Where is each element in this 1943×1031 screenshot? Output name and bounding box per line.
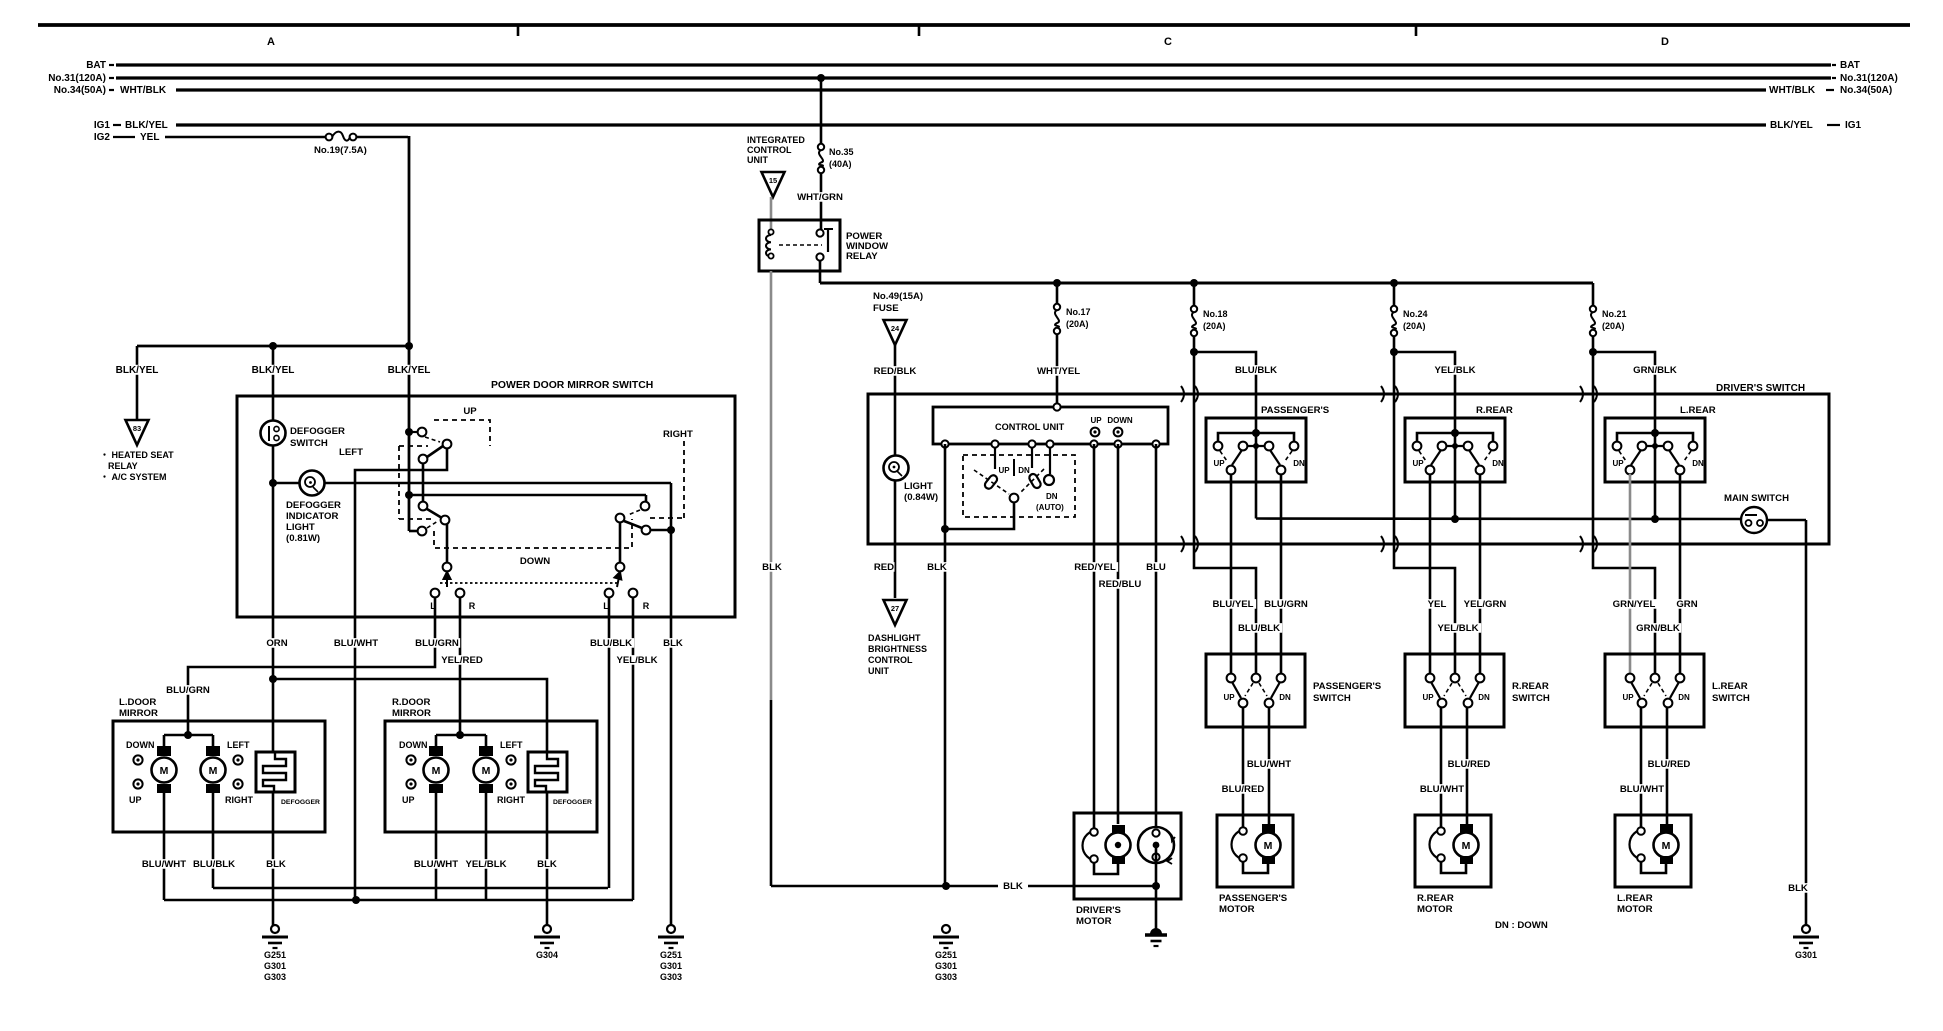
svg-text:M: M (1462, 840, 1471, 852)
svg-text:UP: UP (1422, 693, 1434, 702)
wire YEL from fuse No.19 to column drop (356, 136, 408, 139)
indicator UP right mirror (406, 779, 415, 788)
wire RED/BLU to driver's motor (1117, 444, 1120, 824)
R.REAR feed bar (1417, 433, 1493, 442)
svg-text:L.DOOR: L.DOOR (119, 697, 156, 708)
wire to fuse No.35 (820, 78, 823, 144)
svg-text:G301: G301 (935, 961, 957, 971)
svg-text:G303: G303 (264, 972, 286, 982)
svg-text:M: M (1662, 840, 1671, 852)
PASSENGER'S center wire in box (1255, 436, 1258, 482)
wire YEL IG2 feed (165, 136, 326, 139)
wire BAT bus (116, 63, 1831, 66)
driver's switch plunger DN auto (1049, 448, 1051, 474)
top border frame line (38, 23, 1910, 27)
wire WHT/YEL fuse to control unit (1056, 334, 1059, 403)
wire BLU/RED r.rear motor (1466, 707, 1469, 824)
mechanism dashed LEFT box (398, 446, 400, 519)
wire ICU to relay coil (shield) (770, 197, 773, 230)
junction BLK column y530 (667, 526, 675, 534)
wire BLK bottom run to driver's motor (771, 885, 998, 888)
svg-text:G251: G251 (660, 950, 682, 960)
svg-text:M: M (209, 765, 218, 777)
svg-text:GRN/BLK: GRN/BLK (1633, 365, 1677, 376)
svg-text:MOTOR: MOTOR (1617, 904, 1653, 915)
fuse No.17(20A) (1054, 304, 1060, 310)
wire motor common bar left mirror (164, 734, 213, 737)
svg-text:L.REAR: L.REAR (1680, 405, 1716, 416)
junction BLK common (941, 525, 949, 533)
svg-text:BLK: BLK (762, 562, 782, 573)
driver's switch plunger left (994, 448, 996, 469)
svg-text:IG1: IG1 (94, 120, 111, 131)
svg-text:BLU/RED: BLU/RED (1222, 784, 1265, 795)
svg-text:BLU/GRN: BLU/GRN (1264, 599, 1308, 610)
svg-text:BLK/YEL: BLK/YEL (252, 365, 295, 376)
PASSENGER'S SWITCH enclosure (1206, 654, 1305, 727)
wire relay output to window bus (819, 261, 822, 283)
selector contact J right (616, 563, 625, 572)
svg-text:SWITCH: SWITCH (1712, 693, 1750, 704)
connector triangle 15 integrated control unit (762, 172, 785, 197)
power window relay enclosure (759, 220, 840, 271)
motor M3 up/down right mirror (435, 735, 438, 748)
svg-text:INTEGRATED: INTEGRATED (747, 135, 805, 145)
fuse No.19(7.5A) (326, 134, 333, 141)
left rocker contact B (443, 440, 452, 449)
svg-text:RED: RED (874, 562, 894, 573)
svg-text:RED/BLU: RED/BLU (1099, 579, 1142, 590)
svg-text:YEL/BLK: YEL/BLK (616, 655, 657, 666)
R.REAR contacts (1413, 442, 1422, 451)
L.REAR SWITCH levers (1631, 682, 1640, 698)
wire BLU/WHT l.rear motor (1640, 707, 1643, 828)
motor M1 up/down left mirror (163, 735, 166, 748)
selector arrow left (444, 572, 451, 587)
PASSENGER'S SWITCH levers (1232, 682, 1241, 698)
svg-text:UP: UP (1412, 459, 1424, 468)
mechanism dashed UP linkage (434, 420, 490, 446)
ground G251 G301 G303 control unit (942, 925, 950, 933)
driver's switch plunger mid (1031, 448, 1033, 468)
svg-text:SWITCH: SWITCH (290, 438, 328, 449)
left rocker contact A (405, 428, 413, 436)
left rocker dashed link F (427, 521, 438, 528)
PASSENGER'S SWITCH top contacts (1227, 674, 1236, 683)
wire BLK/YEL down to defogger switch (272, 346, 275, 422)
svg-text:MAIN SWITCH: MAIN SWITCH (1724, 493, 1789, 504)
right rocker contact P (641, 502, 650, 511)
right rocker lever H-I (624, 521, 642, 528)
R.REAR center wire in box (1454, 436, 1457, 482)
wire right mirror motor2 output YEL/BLK (485, 793, 488, 900)
svg-text:BLU/WHT: BLU/WHT (1620, 784, 1664, 795)
svg-text:BLK: BLK (663, 638, 683, 649)
wire WHT/BLK bus (176, 88, 1766, 91)
svg-text:(20A): (20A) (1602, 321, 1625, 331)
wire right mirror motor1 output BLU/WHT (435, 793, 438, 900)
svg-text:INDICATOR: INDICATOR (286, 511, 338, 522)
junction fuse 35 tap on No.31 bus (817, 74, 825, 82)
svg-text:RED/YEL: RED/YEL (1074, 562, 1116, 573)
wire BLU/BLK jog to passenger switch (1194, 352, 1256, 433)
svg-text:M: M (160, 765, 169, 777)
svg-text:YEL: YEL (1428, 599, 1447, 610)
svg-text:BLU/RED: BLU/RED (1648, 759, 1691, 770)
svg-text:DN: DN (1018, 466, 1030, 475)
PASSENGER'S output contacts (1227, 466, 1236, 475)
svg-text:CONTROL UNIT: CONTROL UNIT (995, 422, 1065, 432)
svg-text:No.31(120A): No.31(120A) (48, 73, 106, 84)
svg-text:No.31(120A): No.31(120A) (1840, 73, 1898, 84)
svg-text:D: D (1661, 36, 1669, 48)
junction ORN branch y679 (269, 675, 277, 683)
wire BLU/BLK through driver's switch to door switch (1194, 352, 1256, 674)
svg-text:WHT/BLK: WHT/BLK (120, 85, 167, 96)
L.REAR MOTOR enclosure (1615, 815, 1691, 887)
driver's switch dashed box (963, 455, 1075, 517)
driver's motor breaker contact (1083, 830, 1099, 861)
wire left mirror motor2 output BLU/BLK (212, 793, 215, 888)
wire BLK switch ground drop (670, 617, 673, 929)
terminal L left pair (431, 589, 440, 598)
wire lever common jog to contact (409, 530, 418, 533)
svg-text:(0.81W): (0.81W) (286, 533, 320, 544)
svg-text:UP: UP (402, 795, 415, 805)
ground G251 G301 G303 mirror switch (667, 925, 675, 933)
svg-text:BLK/YEL: BLK/YEL (1770, 120, 1813, 131)
driver's switch dashed lever links (974, 470, 1009, 494)
svg-text:RED/BLK: RED/BLK (874, 366, 917, 377)
wire BLU/GRN from terminal L (188, 597, 435, 735)
svg-text:BLU/BLK: BLU/BLK (590, 638, 632, 649)
svg-text:BLU/BLK: BLU/BLK (1238, 623, 1280, 634)
svg-text:UP: UP (1622, 693, 1634, 702)
junction at 409,346 (405, 342, 413, 350)
svg-text:BLU/BLK: BLU/BLK (193, 859, 235, 870)
power door mirror switch enclosure (237, 396, 735, 617)
motor M2 left/right left mirror (212, 735, 215, 748)
R.REAR SWITCH output contacts (1438, 699, 1447, 708)
wire ORN branch to right defogger (273, 679, 547, 753)
svg-text:(0.84W): (0.84W) (904, 492, 938, 503)
svg-text:G304: G304 (536, 950, 558, 960)
driver's regulator drum (1138, 827, 1174, 863)
grid tick B/C boundary (918, 25, 921, 36)
defogger switch SW1 (261, 421, 286, 446)
wire passenger's center to lock bus (1255, 482, 1258, 519)
wire YEL/GRN r.rear down output (1479, 474, 1482, 674)
svg-text:DN: DN (1492, 459, 1504, 468)
wire RED down from light (894, 480, 897, 598)
wire regulator to ground (1155, 845, 1158, 929)
left rocker contact F (418, 527, 427, 536)
svg-text:G303: G303 (935, 972, 957, 982)
svg-text:DASHLIGHT: DASHLIGHT (868, 633, 921, 643)
wire BLU/RED l.rear motor (1666, 707, 1669, 824)
junction fuse 24 tap (1390, 279, 1398, 287)
R.REAR MOTOR breaker contact (1430, 829, 1445, 860)
right rocker contact I (642, 526, 651, 535)
svg-text:CONTROL: CONTROL (868, 655, 913, 665)
svg-text:UP: UP (1223, 693, 1235, 702)
wire GRN/YEL l.rear up output (shielded) (1629, 474, 1632, 674)
L.REAR feed bar (1617, 433, 1693, 442)
svg-text:No.24: No.24 (1403, 309, 1428, 319)
wire BLK inside switch x671 (670, 483, 673, 617)
ground G251 G301 G303 left mirror (271, 925, 279, 933)
R.REAR levers (1431, 450, 1441, 465)
terminal L right pair (605, 589, 614, 598)
svg-text:YEL/BLK: YEL/BLK (465, 859, 506, 870)
svg-text:M: M (482, 765, 491, 777)
svg-text:WHT/BLK: WHT/BLK (1769, 85, 1816, 96)
right rocker dashed link (628, 510, 640, 515)
svg-text:GRN/YEL: GRN/YEL (1613, 599, 1656, 610)
svg-text:BLU/GRN: BLU/GRN (166, 685, 210, 696)
L.REAR SWITCH enclosure (1605, 654, 1704, 727)
svg-text:YEL/RED: YEL/RED (441, 655, 483, 666)
svg-text:POWER DOOR MIRROR SWITCH: POWER DOOR MIRROR SWITCH (491, 380, 653, 391)
PASSENGER'S MOTOR enclosure (1217, 815, 1293, 887)
junction defogger switch / indicator light (269, 479, 277, 487)
svg-text:L.REAR: L.REAR (1617, 893, 1653, 904)
connector brackets bottom edge (1181, 536, 1184, 552)
motor M4 left/right right mirror (485, 735, 488, 748)
wire YEL/BLK jog to r.rear switch (1394, 352, 1455, 433)
svg-text:・ A/C SYSTEM: ・ A/C SYSTEM (100, 472, 167, 482)
wire defogger switch to ORN output (272, 446, 275, 617)
wire BLU/GRN passenger down output (1280, 474, 1283, 674)
svg-text:SWITCH: SWITCH (1313, 693, 1351, 704)
svg-text:G301: G301 (1795, 950, 1817, 960)
wire BLU/RED passenger motor (1242, 707, 1245, 828)
junction BLU/WHT common y900 (352, 896, 360, 904)
connector triangle 24 fuse 49 (884, 320, 907, 345)
svg-text:YEL/BLK: YEL/BLK (1437, 623, 1478, 634)
junction fuse 17 tap (1053, 279, 1061, 287)
wire ORN down to defogger feed (272, 617, 275, 753)
svg-text:UNIT: UNIT (868, 666, 889, 676)
mechanism dashed DOWN linkage (434, 519, 632, 548)
svg-text:L.REAR: L.REAR (1712, 681, 1748, 692)
svg-text:CONTROL: CONTROL (747, 145, 792, 155)
relay contacts (816, 229, 823, 236)
svg-text:YEL: YEL (140, 132, 159, 143)
svg-text:R.DOOR: R.DOOR (392, 697, 430, 708)
svg-text:BLU/WHT: BLU/WHT (1420, 784, 1464, 795)
svg-text:BLK: BLK (927, 562, 947, 573)
svg-text:BLU/GRN: BLU/GRN (415, 638, 459, 649)
wire RED/BLK to dash light (894, 345, 897, 456)
wire to fuse No.17 (1056, 283, 1059, 304)
svg-text:BLU/RED: BLU/RED (1448, 759, 1491, 770)
left rocker lever column C-D (422, 463, 425, 502)
mechanism dashed RIGHT linkage (683, 441, 685, 518)
svg-text:83: 83 (133, 424, 141, 433)
fuse No.24(20A) (1391, 306, 1397, 312)
connector brackets top edge (1181, 386, 1184, 402)
wire YEL r.rear up output (1429, 474, 1432, 674)
svg-text:BLK/YEL: BLK/YEL (388, 365, 431, 376)
wire BLU/WHT pickoff B to output (355, 448, 447, 617)
wire GRN/BLK jog to l.rear switch (1593, 352, 1655, 433)
svg-text:DOWN: DOWN (520, 556, 550, 567)
terminal R left pair (456, 589, 465, 598)
svg-text:DN: DN (1046, 492, 1058, 501)
wire RED/YEL to driver's motor (1093, 444, 1096, 828)
svg-text:RIGHT: RIGHT (663, 429, 693, 440)
wire GRN l.rear down output (1679, 474, 1682, 674)
svg-text:DEFOGGER: DEFOGGER (553, 799, 592, 806)
svg-text:M: M (1264, 840, 1273, 852)
svg-text:DOWN: DOWN (126, 740, 155, 750)
svg-text:LEFT: LEFT (500, 740, 523, 750)
L.REAR MOTOR motor (1660, 824, 1673, 833)
wire BLU/WHT passenger motor (1268, 707, 1271, 824)
junction r.rear center (1451, 515, 1459, 523)
wire left defogger BLK ground drop (272, 792, 275, 929)
L.REAR contacts (1613, 442, 1622, 451)
R.REAR SWITCH levers (1431, 682, 1440, 698)
svg-text:BLU/WHT: BLU/WHT (142, 859, 186, 870)
wire BLU/WHT common down (354, 617, 357, 900)
svg-text:No.19(7.5A): No.19(7.5A) (314, 145, 367, 156)
svg-text:MOTOR: MOTOR (1219, 904, 1255, 915)
PASSENGER'S contacts (1214, 442, 1223, 451)
svg-text:DEFOGGER: DEFOGGER (286, 500, 341, 511)
svg-text:G251: G251 (935, 950, 957, 960)
driver's motor bottom link (1094, 863, 1118, 874)
svg-text:No.35: No.35 (829, 147, 854, 157)
svg-text:R.REAR: R.REAR (1476, 405, 1513, 416)
bus BAT label right (1832, 64, 1836, 66)
svg-text:24: 24 (891, 324, 900, 333)
wire GRN/BLK through driver's switch to door switch (1593, 352, 1655, 674)
svg-text:G301: G301 (264, 961, 286, 971)
wire BLU/BLK routing line y888 (213, 887, 608, 890)
bus No.31(120A) label right (1832, 77, 1836, 79)
svg-text:BLU/WHT: BLU/WHT (334, 638, 378, 649)
wire YEL/BLK from terminal R (632, 597, 635, 900)
svg-text:ORN: ORN (266, 638, 287, 649)
svg-text:UP: UP (1213, 459, 1225, 468)
junction BLK at driver's motor (1152, 882, 1160, 890)
relay coil (768, 229, 773, 234)
svg-text:DOWN: DOWN (399, 740, 428, 750)
wire power window feed bus y283 (820, 282, 1593, 285)
wire lever E to selector G (446, 524, 449, 563)
terminal R right pair (629, 589, 638, 598)
left rocker dashed link A-B (425, 437, 440, 442)
wire window lock bus y518 (1256, 517, 1742, 520)
svg-text:YEL/BLK: YEL/BLK (1434, 365, 1475, 376)
L.REAR levers (1631, 450, 1641, 465)
defogger element right mirror (528, 752, 567, 792)
svg-text:GRN: GRN (1676, 599, 1697, 610)
svg-text:LIGHT: LIGHT (286, 522, 315, 533)
ground G301 main switch (1802, 925, 1810, 933)
R.REAR output contacts (1426, 466, 1435, 475)
svg-text:PASSENGER'S: PASSENGER'S (1261, 405, 1330, 416)
svg-text:BLK/YEL: BLK/YEL (116, 365, 159, 376)
svg-text:UNIT: UNIT (747, 155, 768, 165)
svg-text:DN: DN (1692, 459, 1704, 468)
svg-text:GRN/BLK: GRN/BLK (1636, 623, 1680, 634)
right rocker contact H (616, 514, 625, 523)
wire to fuse No.24 (1393, 283, 1396, 306)
svg-text:RIGHT: RIGHT (225, 795, 254, 805)
wire right lever H to selector J (619, 522, 622, 563)
R.REAR MOTOR bottom link (1441, 862, 1466, 873)
wire BLU/YEL passenger up output (1230, 474, 1233, 674)
svg-text:No.17: No.17 (1066, 307, 1091, 317)
svg-text:UP: UP (129, 795, 142, 805)
svg-text:LEFT: LEFT (227, 740, 250, 750)
svg-text:BLU/BLK: BLU/BLK (1235, 365, 1277, 376)
svg-text:UP: UP (1612, 459, 1624, 468)
svg-text:(20A): (20A) (1203, 321, 1226, 331)
R.REAR SWITCH enclosure (1405, 654, 1504, 727)
svg-text:G251: G251 (264, 950, 286, 960)
wire contact I to BLK column (650, 529, 671, 532)
svg-text:M: M (432, 765, 441, 777)
svg-text:(40A): (40A) (829, 159, 852, 169)
wire BLK/YEL to right rocker y495 (409, 494, 646, 497)
svg-text:IG1: IG1 (1845, 120, 1862, 131)
wire WHT/GRN fuse to relay (820, 173, 823, 230)
control unit terminals (941, 440, 948, 447)
wire BLK control unit ground (944, 444, 947, 886)
svg-text:MOTOR: MOTOR (1076, 916, 1112, 927)
svg-text:BLU: BLU (1146, 562, 1166, 573)
svg-text:DN: DN (1279, 693, 1291, 702)
defogger indicator light L1 (0.81W) (273, 482, 299, 485)
PASSENGER'S feed bar (1218, 433, 1294, 442)
svg-text:BRIGHTNESS: BRIGHTNESS (868, 644, 927, 654)
left rocker lever D-E (427, 509, 442, 518)
wire BLK/YEL vertical drop x409 (408, 136, 411, 347)
svg-text:BAT: BAT (86, 60, 106, 71)
svg-text:No.18: No.18 (1203, 309, 1228, 319)
driver's motor enclosure (1074, 813, 1181, 899)
ground driver's motor (1150, 928, 1162, 934)
svg-text:DN : DOWN: DN : DOWN (1495, 920, 1548, 931)
selector arrow right (615, 572, 622, 587)
svg-text:WHT/YEL: WHT/YEL (1037, 366, 1080, 377)
svg-text:UP: UP (998, 466, 1010, 475)
svg-text:BLK: BLK (537, 859, 557, 870)
svg-text:No.34(50A): No.34(50A) (54, 85, 106, 96)
wire BLK/YEL down to connector 83 (136, 346, 139, 419)
driver's motor (1112, 825, 1125, 834)
ground G304 right mirror (543, 925, 551, 933)
svg-text:DRIVER'S SWITCH: DRIVER'S SWITCH (1716, 383, 1805, 394)
grid tick C/D boundary (1415, 25, 1418, 36)
svg-text:R: R (643, 601, 650, 611)
svg-text:BLU/WHT: BLU/WHT (414, 859, 458, 870)
L.REAR SWITCH top contacts (1626, 674, 1635, 683)
svg-text:R.REAR: R.REAR (1512, 681, 1549, 692)
left rocker contact E (441, 516, 450, 525)
svg-text:(20A): (20A) (1066, 319, 1089, 329)
svg-text:IG2: IG2 (94, 132, 111, 143)
wire BLK main switch to ground (1805, 520, 1808, 929)
PASSENGER'S MOTOR bottom link (1243, 862, 1268, 873)
svg-text:RELAY: RELAY (846, 251, 878, 262)
svg-text:WHT/GRN: WHT/GRN (797, 192, 843, 203)
junction fuse 18 tap (1190, 279, 1198, 287)
